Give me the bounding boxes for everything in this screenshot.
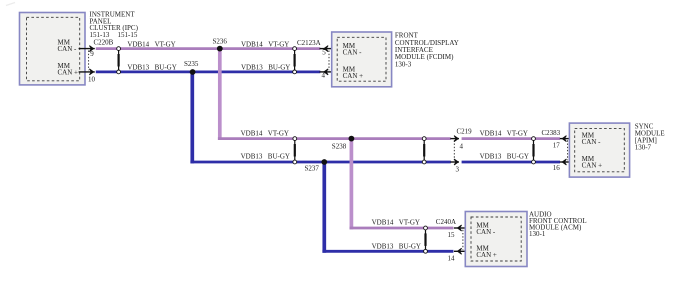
svg-text:CAN -: CAN - [343,48,363,56]
C219 pin 3 arrow [450,159,459,165]
svg-text:S237: S237 [305,164,320,172]
connector C2383 dashed pin link [567,140,569,160]
module ACM box [465,212,527,267]
connector C220B dashed pin link [88,51,90,71]
svg-text:S236: S236 [213,38,228,46]
svg-text:4: 4 [322,72,326,80]
module SYNC box [569,123,629,177]
connector C240A dashed pin link [462,230,464,250]
C219 pin 4 arrow [450,136,459,142]
svg-text:VDB13: VDB13 [127,64,149,72]
IPC pin 10 label MM CAN+ [58,62,79,76]
svg-text:VDB14: VDB14 [480,129,502,137]
svg-text:CAN +: CAN + [476,251,497,259]
twisted pair symbol T1 [117,47,121,74]
svg-text:9: 9 [90,50,94,58]
svg-text:S235: S235 [184,60,199,68]
svg-text:CAN +: CAN + [343,72,364,80]
svg-text:VDB13: VDB13 [480,153,502,161]
ACM pin 15 arrow [454,225,465,231]
svg-text:CAN -: CAN - [476,228,496,236]
svg-text:3: 3 [456,166,460,174]
ACM pin 15 label MM CAN- [476,221,496,235]
svg-text:BU-GY: BU-GY [507,153,529,161]
FCDIM pin 4 arrow [320,69,332,75]
svg-text:CAN +: CAN + [58,68,79,76]
SYNC pin 17 label MM CAN- [582,132,602,146]
twisted pair symbol T4 [422,137,426,164]
module ACM title text [529,210,587,238]
FCDIM pin 5 arrow [320,46,332,52]
wire VDB13 BU-GY from splice S237 down and right to ACM [322,162,326,253]
svg-text:C220B: C220B [94,39,114,47]
svg-text:S238: S238 [332,142,347,150]
FCDIM pin 5 label MM CAN- [343,42,363,56]
svg-text:10: 10 [88,75,96,83]
svg-text:CAN -: CAN - [58,45,78,53]
svg-text:BU-GY: BU-GY [399,243,421,251]
svg-text:VT-GY: VT-GY [399,219,420,227]
svg-text:VDB14: VDB14 [372,219,394,227]
connector C2123A dashed pin link [328,51,330,71]
svg-text:BU-GY: BU-GY [268,64,290,72]
ACM pin 14 label MM CAN+ [476,245,497,259]
ACM pin 14 arrow [454,248,465,254]
svg-text:BU-GY: BU-GY [268,153,290,161]
module FCDIM box [332,32,392,87]
svg-text:C2383: C2383 [542,129,561,137]
wire VDB14 VT-GY from splice S236 down and right to C219 [218,49,222,140]
svg-text:C2123A: C2123A [297,39,321,47]
svg-text:C240A: C240A [436,218,456,226]
svg-text:VDB14: VDB14 [127,40,149,48]
svg-text:VT-GY: VT-GY [268,40,289,48]
svg-text:VT-GY: VT-GY [507,129,528,137]
svg-text:VDB13: VDB13 [372,243,394,251]
svg-text:VT-GY: VT-GY [155,40,176,48]
wire VDB13 BU-GY row2 C219 to SYNC [462,161,560,164]
wire VDB14 VT-GY row1 IPC to FCDIM [96,47,320,50]
svg-text:17: 17 [553,141,561,149]
svg-text:VT-GY: VT-GY [268,129,289,137]
svg-text:16: 16 [553,164,561,172]
IPC pin 9 arrow [79,46,95,52]
wire VDB14 VT-GY from splice S238 down and right to ACM [350,139,354,230]
twisted pair symbol T3 [293,137,297,164]
svg-text:151-15: 151-15 [118,31,138,39]
SYNC pin 16 arrow [560,159,570,165]
svg-text:5: 5 [322,49,326,57]
splice S237 [321,159,327,165]
svg-text:4: 4 [460,143,464,151]
splice S238 [349,136,355,142]
wire VDB14 VT-GY row2 C219 to SYNC [462,137,560,140]
twisted pair symbol T2 [293,47,297,74]
svg-text:VDB14: VDB14 [241,129,263,137]
SYNC pin 17 arrow [560,136,570,142]
svg-text:VDB13: VDB13 [241,153,263,161]
svg-text:130-3: 130-3 [395,60,412,68]
svg-text:BU-GY: BU-GY [155,64,177,72]
svg-text:CAN -: CAN - [582,138,602,146]
svg-text:14: 14 [448,254,456,262]
twisted pair symbol T6 [424,226,428,253]
IPC pin 9 label MM CAN- [58,39,78,53]
splice S235 [190,69,196,75]
wire VDB13 BU-GY from splice S235 down and right to C219 [190,72,194,163]
svg-text:C219: C219 [457,127,473,135]
FCDIM pin 4 label MM CAN+ [343,66,364,80]
wire VDB13 BU-GY row1 IPC to FCDIM [96,71,320,74]
twisted pair symbol T5 [532,137,536,164]
splice S236 [217,46,223,52]
svg-text:CAN +: CAN + [582,161,603,169]
module SYNC title text [635,123,665,152]
module IPC title text [90,10,139,39]
svg-text:130-7: 130-7 [635,144,652,152]
connector C219 dashed pin link [453,140,455,160]
svg-text:VDB14: VDB14 [241,40,263,48]
module FCDIM title text [395,32,459,69]
module IPC box [20,13,86,85]
svg-text:130-1: 130-1 [529,230,546,238]
svg-text:VDB13: VDB13 [241,64,263,72]
svg-text:15: 15 [448,231,456,239]
SYNC pin 16 label MM CAN+ [582,155,603,169]
IPC pin 10 arrow [79,69,95,75]
